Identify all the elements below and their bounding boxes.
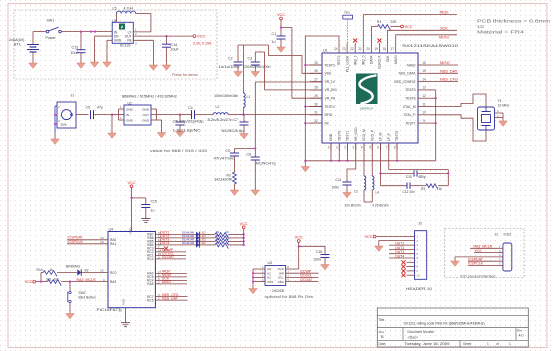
U2 right ground pins to ground [151, 108, 157, 110]
svg-text:1.8p/1.8p/NC: 1.8p/1.8p/NC [173, 129, 202, 133]
svg-text:4: 4 [361, 146, 363, 150]
svg-text:22K: 22K [391, 20, 398, 24]
svg-text:PIC16F677: PIC16F677 [97, 308, 121, 312]
svg-text:MISO: MISO [407, 63, 416, 67]
capacitor C15 1u [132, 197, 146, 199]
svg-text:12 MHz: 12 MHz [498, 104, 510, 108]
ground under U2 output side [157, 133, 166, 138]
junction node at SAW input [111, 114, 113, 116]
svg-text:R5: R5 [216, 234, 220, 238]
svg-text:18: 18 [383, 47, 387, 51]
svg-text:LF_P: LF_P [387, 132, 391, 141]
svg-text:Date:: Date: [379, 342, 387, 346]
svg-text:16: 16 [422, 61, 426, 65]
ground under R2 [230, 190, 239, 195]
node VCC for U3 [297, 240, 300, 243]
svg-text:VSS: VSS [325, 72, 332, 76]
svg-text:VCC: VCC [405, 25, 413, 29]
svg-text:TEST7: TEST7 [405, 121, 415, 125]
svg-text:SEMTECH: SEMTECH [360, 106, 373, 110]
svg-text:PLL_LOCK: PLL_LOCK [345, 55, 349, 72]
J3 ground pin [379, 240, 415, 242]
svg-text:RA5: RA5 [147, 282, 153, 286]
svg-text:ICD process interface: ICD process interface [461, 274, 496, 278]
svg-text:RC4: RC4 [147, 257, 154, 261]
svg-text:I2CDAT: I2CDAT [300, 278, 313, 282]
U1 top pin stubs and names [338, 43, 340, 53]
svg-text:D1N4148: D1N4148 [182, 231, 195, 235]
ground under U3 tie [249, 289, 258, 294]
ground at crystal [499, 121, 508, 126]
svg-text:RA3: RA3 [110, 280, 116, 284]
svg-text:1: 1 [336, 146, 338, 150]
svg-text:C14: C14 [171, 43, 178, 47]
svg-text:C10: C10 [406, 175, 412, 179]
dashed ICD box [445, 229, 525, 278]
svg-text:22: 22 [350, 47, 354, 51]
svg-text:C16: C16 [316, 250, 322, 254]
wire IRQ_0 with label IRQ0 [363, 15, 457, 43]
svg-text:OUT: OUT [142, 113, 149, 117]
svg-text:10: 10 [422, 111, 426, 115]
ground under SW2 [66, 314, 75, 319]
svg-text:ICD2: ICD2 [504, 233, 512, 237]
svg-text:BT1: BT1 [14, 43, 21, 47]
svg-text:SC120: SC120 [120, 43, 130, 47]
U2 output wire [151, 114, 180, 116]
wire VR_1V [255, 81, 322, 83]
capacitor C12 10n with resistor R3 1k [381, 185, 408, 187]
ground under C14 [162, 65, 171, 70]
svg-text:R3: R3 [421, 187, 425, 191]
svg-text:SCK: SCK [440, 26, 448, 30]
svg-text:C7: C7 [234, 118, 238, 122]
svg-text:100n/100n/18n: 100n/100n/18n [214, 94, 238, 98]
svg-text:1u/1u/100n: 1u/1u/100n [219, 65, 240, 69]
svg-text:NSS_DATA: NSS_DATA [399, 72, 417, 76]
J2 ICSPCLK wire [468, 265, 498, 267]
svg-text:I2CDAT: I2CDAT [162, 255, 175, 259]
ground at bus [304, 161, 306, 167]
svg-text:25: 25 [314, 61, 318, 65]
svg-text:OUT4: OUT4 [395, 254, 404, 258]
svg-text:GND: GND [126, 108, 134, 112]
svg-text:23: 23 [342, 47, 346, 51]
svg-text:TEST5: TEST5 [395, 131, 399, 141]
svg-text:220n/220n/100n: 220n/220n/100n [244, 65, 271, 69]
svg-text:J3: J3 [418, 222, 422, 226]
J2 VCC wire [474, 252, 498, 254]
title block frame [377, 308, 528, 347]
svg-text:IRQ_1: IRQ_1 [353, 55, 357, 65]
ground under BT1 [29, 63, 38, 68]
svg-text:RA3_MCLR: RA3_MCLR [77, 278, 97, 282]
semtech logo [356, 74, 378, 105]
svg-text:15: 15 [422, 69, 426, 73]
U1 bottom pin stubs and names [330, 143, 332, 150]
svg-text:VCO_M: VCO_M [362, 129, 366, 141]
svg-text:868MHz / 915MHz / 433.92MHz: 868MHz / 915MHz / 433.92MHz [122, 95, 177, 99]
svg-text:17: 17 [391, 47, 395, 51]
svg-text:D1N4148: D1N4148 [182, 234, 195, 238]
svg-text:SCK: SCK [386, 55, 390, 63]
loop filter wires LF_M LF_P [380, 143, 382, 186]
resistor R1 22K pull-up on DATA [371, 27, 377, 44]
svg-text:Press for demo: Press for demo [172, 73, 198, 77]
U1 left pin stubs and names [310, 64, 322, 66]
svg-text:MISO: MISO [440, 61, 450, 65]
svg-text:NC/NC/5.6p: NC/NC/5.6p [222, 129, 244, 133]
svg-text:D1N4148: D1N4148 [182, 241, 195, 245]
svg-text:C15: C15 [151, 200, 157, 204]
capacitor C6 shunt 1.8p/1.8p/NC [179, 114, 181, 116]
svg-text:XTAL_P: XTAL_P [403, 113, 416, 117]
svg-text:R7: R7 [216, 241, 220, 245]
svg-text:SMA: SMA [61, 123, 67, 127]
svg-text:TEST3: TEST3 [325, 63, 335, 67]
svg-text:<Doc>: <Doc> [408, 336, 419, 340]
svg-text:C1: C1 [272, 32, 277, 36]
svg-text:C2: C2 [228, 57, 233, 61]
U5 pin stubs [133, 31, 151, 33]
svg-text:100n: 100n [332, 186, 340, 190]
svg-text:HEADER 10: HEADER 10 [406, 287, 432, 291]
svg-text:of: of [496, 342, 499, 346]
svg-text:NSS_DAT: NSS_DAT [162, 296, 179, 300]
svg-text:RA1: RA1 [110, 242, 116, 246]
svg-text:1: 1 [487, 342, 489, 346]
svg-text:IRQ0: IRQ0 [440, 11, 449, 15]
wire TEST2 to ground rail [305, 36, 339, 161]
svg-text:22n 8n/10n: 22n 8n/10n [345, 204, 361, 208]
ground bus under U1 [305, 160, 435, 162]
svg-text:PCB thickness = 0.8mm: PCB thickness = 0.8mm [477, 18, 551, 23]
svg-text:C9: C9 [226, 149, 230, 153]
svg-text:C11: C11 [336, 178, 342, 182]
svg-text:18: 18 [100, 240, 104, 244]
svg-text:0.25 8n/10n: 0.25 8n/10n [373, 204, 389, 208]
svg-text:IN: IN [126, 113, 129, 117]
svg-text:VCC: VCC [475, 249, 483, 253]
svg-text:Y1: Y1 [498, 99, 502, 103]
svg-text:L1: L1 [247, 95, 251, 99]
wire VCO tank bottom [364, 201, 372, 203]
capacitor C11 100n on VR_VCO [347, 143, 356, 182]
svg-text:U4: U4 [109, 227, 114, 231]
switch SW2 bind button [69, 282, 71, 292]
svg-text:U3: U3 [268, 261, 273, 265]
svg-text:L2: L2 [216, 105, 220, 109]
svg-text:NC: NC [325, 121, 330, 125]
svg-text:MOSI: MOSI [394, 55, 398, 64]
svg-text:value for 868 / 915 / 433: value for 868 / 915 / 433 [150, 148, 208, 153]
svg-text:1K: 1K [226, 241, 229, 245]
svg-text:24C02B: 24C02B [272, 289, 285, 293]
ground under C1 [277, 47, 286, 52]
svg-text:J2: J2 [495, 233, 499, 237]
svg-text:1K: 1K [226, 234, 229, 238]
svg-text:8: 8 [394, 146, 396, 150]
svg-text:3: 3 [352, 146, 354, 150]
X no-connect on CLKOUT [378, 39, 382, 43]
svg-text:GND: GND [329, 133, 333, 141]
wire XTAL_M to crystal [430, 94, 486, 107]
capacitor C10 680p [381, 172, 415, 174]
svg-text:TP1: TP1 [344, 11, 350, 15]
svg-text:C5: C5 [86, 106, 91, 110]
J3 OUT pins [389, 244, 415, 246]
svg-text:27: 27 [314, 77, 318, 81]
node RFIO match [242, 114, 244, 116]
svg-text:8.2n/8.2n/27n: 8.2n/8.2n/27n [208, 118, 233, 122]
svg-text:MISO: MISO [162, 280, 171, 284]
svg-text:VR_1V: VR_1V [325, 80, 336, 84]
node VCC regulator output [193, 35, 196, 38]
svg-text:Material = FR4: Material = FR4 [477, 29, 525, 34]
svg-text:4.0: 4.0 [519, 333, 524, 337]
svg-text:optional for 868 Rx Gen: optional for 868 Rx Gen [265, 295, 314, 299]
wire VCC tie for LED resistors [243, 234, 245, 245]
svg-text:L3: L3 [354, 190, 358, 194]
svg-text:1oz: 1oz [477, 24, 484, 29]
X no-connect on IRQ_1 [353, 39, 357, 43]
svg-text:19: 19 [374, 47, 378, 51]
svg-text:1k/1k/0R: 1k/1k/0R [214, 178, 233, 182]
svg-text:VCC: VCC [240, 222, 248, 226]
svg-text:10uF: 10uF [171, 48, 180, 52]
svg-text:Rev: Rev [517, 329, 523, 333]
svg-text:TEST9: TEST9 [405, 88, 415, 92]
svg-text:21: 21 [358, 47, 362, 51]
svg-text:SW2: SW2 [79, 291, 86, 295]
svg-text:Power: Power [46, 36, 57, 40]
svg-text:Sheet: Sheet [463, 342, 471, 346]
svg-text:7: 7 [385, 146, 387, 150]
svg-text:R4: R4 [216, 230, 220, 234]
ground under C8 chain [251, 190, 260, 195]
svg-text:1K: 1K [226, 237, 229, 241]
svg-text:12: 12 [422, 94, 426, 98]
ground under C16 [321, 265, 330, 270]
svg-text:GND: GND [142, 119, 150, 123]
svg-text:VCO_P: VCO_P [370, 129, 374, 141]
U3 right wires [286, 268, 299, 270]
svg-text:TEST0: TEST0 [337, 131, 341, 141]
wire SCK with label [388, 30, 457, 43]
svg-text:GND: GND [126, 119, 134, 123]
svg-text:VDD: VDD [129, 227, 133, 234]
svg-text:TEST1: TEST1 [346, 131, 350, 141]
ground under C7 [240, 134, 249, 139]
svg-text:47n/47n/nc: 47n/47n/nc [214, 157, 235, 161]
node VCC for PIC [130, 185, 133, 188]
svg-text:680p: 680p [419, 175, 426, 179]
svg-text:2: 2 [344, 146, 346, 150]
wire switch to regulator input [61, 31, 112, 33]
svg-text:0: 0 [328, 146, 330, 150]
svg-text:1u: 1u [272, 40, 276, 44]
svg-text:Size: Size [379, 330, 385, 334]
svg-text:ICSPCLK: ICSPCLK [68, 240, 84, 244]
J2 ICSPDAT wire [468, 260, 498, 262]
svg-text:VCC: VCC [25, 280, 33, 284]
svg-text:CLKOUT: CLKOUT [378, 56, 382, 69]
inductor L3 VCO tank [363, 143, 365, 176]
svg-text:ICSPCLK: ICSPCLK [468, 262, 484, 266]
svg-text:C6 22p/22p/43p: C6 22p/22p/43p [173, 120, 204, 124]
svg-text:29: 29 [314, 94, 318, 98]
svg-text:TEST2: TEST2 [337, 55, 341, 65]
svg-text:C3: C3 [248, 57, 253, 61]
wire NSS_CONFIG net label [430, 81, 458, 83]
svg-text:OUT4: OUT4 [160, 241, 169, 245]
svg-text:VR_DIG: VR_DIG [325, 88, 338, 92]
svg-text:TEST8: TEST8 [405, 97, 415, 101]
ground under FB net [149, 65, 158, 70]
svg-text:VR_VCO: VR_VCO [354, 127, 358, 141]
U5 GND stub to ground [107, 39, 112, 41]
wire NSS_DATA net label [430, 72, 458, 74]
wire VR_DIG [264, 52, 266, 90]
svg-text:6: 6 [377, 146, 379, 150]
svg-text:VCC: VCC [295, 236, 303, 240]
svg-text:VSS: VSS [122, 299, 126, 305]
svg-text:1K: 1K [226, 230, 229, 234]
svg-text:RFIO: RFIO [325, 113, 333, 117]
svg-text:SX1211SKA1SW010: SX1211SKA1SW010 [402, 44, 458, 48]
svg-text:1u: 1u [151, 208, 155, 212]
wire XTAL_P to crystal [430, 115, 486, 141]
svg-text:14: 14 [422, 77, 426, 81]
svg-text:VR_PA: VR_PA [325, 97, 336, 101]
ground under C4 power [251, 72, 260, 77]
svg-text:GND: GND [142, 108, 150, 112]
svg-text:FB: FB [127, 39, 131, 43]
svg-text:5: 5 [369, 146, 371, 150]
J2 ground wire [455, 256, 498, 258]
svg-text:13: 13 [422, 86, 426, 90]
svg-text:NSS_CFG: NSS_CFG [440, 78, 458, 82]
J2 RA3_MCLR wire [470, 247, 498, 249]
svg-text:R6: R6 [216, 237, 220, 241]
junction VCC to VR_PA [280, 27, 282, 29]
svg-text:GND: GND [114, 39, 122, 43]
svg-text:C12 10n: C12 10n [403, 190, 415, 194]
svg-text:NSS_DAT: NSS_DAT [440, 69, 458, 73]
wire MISO net label [430, 64, 458, 66]
svg-text:20: 20 [366, 47, 370, 51]
svg-text:32: 32 [314, 119, 318, 123]
svg-text:NC/NC/47p: NC/NC/47p [256, 161, 276, 165]
svg-text:Title: Title [379, 318, 385, 322]
svg-text:4.7uH: 4.7uH [124, 6, 134, 10]
IC U1 SX1211 body [322, 53, 418, 143]
crystal ground pins [495, 112, 504, 114]
ground under C11 [343, 193, 352, 198]
node VCC near C1 [280, 17, 283, 20]
U2 left ground pins [119, 108, 125, 110]
svg-text:U1: U1 [323, 49, 328, 53]
wire TEST9/TEST8/TEST7 tie [430, 89, 436, 91]
svg-text:R1: R1 [377, 20, 381, 24]
U1 right pin stubs and names [418, 64, 430, 66]
svg-text:L5: L5 [113, 6, 117, 10]
svg-text:R10: R10 [37, 268, 43, 272]
svg-text:VSS: VSS [267, 280, 273, 284]
wire TEST5 to bus [396, 143, 398, 161]
svg-text:D1N4148: D1N4148 [182, 238, 195, 242]
svg-text:Tuesday, June 16, 2009: Tuesday, June 16, 2009 [405, 342, 450, 346]
svg-text:24: 24 [334, 47, 338, 51]
inductor L4 VCO tank [371, 143, 373, 176]
svg-text:RC0: RC0 [110, 271, 117, 275]
svg-text:VCC: VCC [127, 181, 135, 185]
svg-text:VCC: VCC [197, 34, 206, 39]
U3 address pins ground tie [252, 269, 254, 289]
svg-text:C8: C8 [247, 153, 251, 157]
svg-text:TEST4: TEST4 [325, 105, 335, 109]
ground under C15 (earth) [141, 218, 150, 220]
svg-text:47p: 47p [97, 106, 103, 110]
ground under C13 [77, 63, 86, 68]
svg-text:3.3V, 0.15A: 3.3V, 0.15A [193, 41, 212, 45]
svg-text:2xAA(3V): 2xAA(3V) [9, 38, 24, 42]
svg-text:26: 26 [314, 69, 318, 73]
svg-text:15: 15 [100, 269, 104, 273]
dashed demo-supply enclosure box [14, 10, 217, 79]
svg-text:DATA: DATA [370, 55, 374, 64]
svg-text:100n: 100n [314, 258, 322, 262]
wire J1 to C5 [76, 114, 89, 116]
U4 left pins RA0 RA1 ICSP [67, 239, 108, 241]
svg-text:D2: D2 [85, 268, 89, 272]
svg-text:28: 28 [314, 86, 318, 90]
svg-text:SDA: SDA [278, 280, 285, 284]
J3 no-connect pins [407, 261, 415, 263]
svg-text:1: 1 [509, 342, 511, 346]
svg-text:SX1211 rolling code RKE Rx (86: SX1211 rolling code RKE Rx (868/915MHz/4… [404, 321, 486, 326]
svg-text:L4: L4 [376, 191, 380, 195]
capacitor C16 100n [299, 245, 325, 247]
svg-text:VCC: VCC [365, 235, 373, 239]
svg-text:31: 31 [314, 111, 318, 115]
ground at SAW input shunt [108, 133, 117, 138]
wire MOSI with label [396, 35, 457, 43]
svg-text:C4: C4 [188, 106, 193, 110]
svg-text:RC5: RC5 [147, 298, 154, 302]
svg-text:C13: C13 [72, 45, 79, 49]
node VCC at R1 [401, 25, 404, 28]
svg-text:XTAL_M: XTAL_M [403, 105, 416, 109]
rail1 wire [238, 44, 269, 46]
svg-text:SW1: SW1 [47, 19, 55, 23]
svg-text:1k: 1k [439, 187, 443, 191]
U4 VSS pin to ground [125, 308, 127, 323]
J3 VCC pin [373, 235, 376, 238]
svg-text:Document Number: Document Number [408, 330, 436, 334]
svg-text:MOSI: MOSI [439, 36, 449, 40]
svg-text:30: 30 [314, 102, 318, 106]
svg-text:20: 20 [119, 309, 123, 313]
svg-text:11: 11 [422, 102, 426, 106]
svg-text:LF_M: LF_M [379, 132, 383, 141]
svg-text:NSS_CONFIG: NSS_CONFIG [394, 80, 416, 84]
svg-text:Bind Button: Bind Button [79, 296, 96, 300]
ground under J1 [51, 139, 60, 144]
ground under C2 [234, 72, 243, 77]
svg-text:BINDING: BINDING [66, 265, 80, 269]
svg-text:J1: J1 [71, 94, 75, 98]
